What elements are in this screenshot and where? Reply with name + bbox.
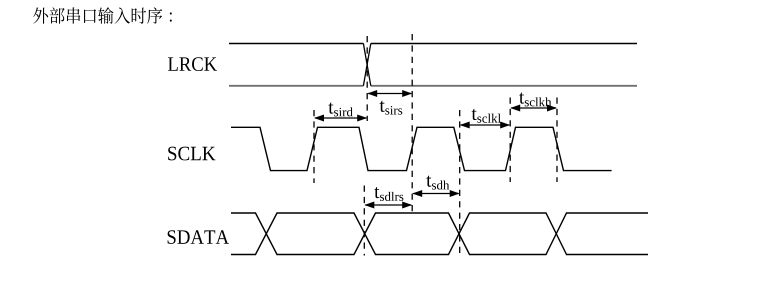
LRCK crossover rising edge [363,44,370,86]
LRCK waveform: low-level segment right of crossover [371,85,637,87]
dimension arrow t_sirs [368,93,411,95]
dashed marker line at SCLK rising edge (left bound of t_sird) [313,110,315,183]
dimension arrow t_sdlrs [365,204,411,206]
signal label SCLK [168,147,215,161]
label t_sdh [426,176,431,187]
title text: 外部串口输入时序: (vector outlines) [33,7,172,24]
dashed marker line at LRCK crossover (left bound of t_sirs, right bound of t_sird) [366,36,368,121]
signal label LRCK [168,57,217,71]
SCLK waveform: bit-clock trapezoidal pulses [231,127,612,170]
LRCK waveform: high-level segment left of crossover [229,43,363,45]
dimension arrow t_sclkh [511,107,556,109]
LRCK waveform: high-level segment right of crossover [371,43,637,45]
LRCK crossover falling edge [363,44,370,86]
dashed marker line at SCLK falling edge / SDATA crossover (left bound of t_sclkl, right bound of t_sdh) [459,110,461,256]
label t_sdlrs [374,187,379,198]
dashed marker line at SCLK rising edge (right bound of t_sclkl, left bound of t_sclkh) [509,98,511,183]
LRCK waveform: low-level segment left of crossover [229,85,363,87]
dashed marker line at SCLK rising edge (right bound of t_sirs / t_sdlrs, left bound of t_sdh) [411,34,413,213]
dimension arrow t_sird [315,117,366,119]
label t_sirs [380,101,385,112]
label t_sclkl [472,109,477,120]
dashed marker line at SCLK falling edge (right bound of t_sclkh) [556,98,558,183]
label t_sclkh [519,93,524,104]
dashed marker line at SDATA crossover (left bound of t_sdlrs) [363,186,365,256]
SDATA waveform: data bus trace 1 (starts high) [231,213,648,255]
dimension arrow t_sclkl [461,124,510,126]
dimension arrow t_sdh [413,193,459,195]
SDATA waveform: data bus trace 2 (starts low) [231,213,648,255]
signal label SDATA [168,230,229,244]
label t_sird [328,103,333,114]
